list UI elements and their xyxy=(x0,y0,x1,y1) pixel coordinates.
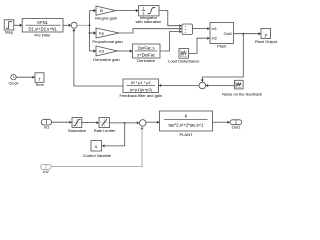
svg-text:Rate Limiter: Rate Limiter xyxy=(94,128,116,133)
svg-text:Clock: Clock xyxy=(8,81,18,86)
svg-text:Plant Output: Plant Output xyxy=(255,39,278,44)
svg-text:Plant: Plant xyxy=(217,43,227,48)
svg-text:Derivative gain: Derivative gain xyxy=(93,57,119,62)
label Integrator with saturation xyxy=(136,15,162,24)
port Out1 (subsystem) xyxy=(230,120,242,125)
subsystem Plant xyxy=(210,23,234,44)
svg-text:Derivative: Derivative xyxy=(137,58,156,63)
wire branch to Kd xyxy=(90,49,97,52)
wire In2 to sum3 xyxy=(51,127,143,167)
source Noise xyxy=(235,80,244,89)
svg-text:Pre Filter: Pre Filter xyxy=(34,32,51,37)
wire branch to Ki xyxy=(90,9,97,12)
sink Time xyxy=(35,73,44,83)
wire Feedback filter to sum1 (negative feedback) xyxy=(72,29,123,86)
svg-text:Step: Step xyxy=(5,30,14,35)
wire Noise to sum2 xyxy=(206,84,235,87)
svg-text:Proportional gain: Proportional gain xyxy=(92,39,122,44)
transfer function PLANT xyxy=(160,111,213,131)
svg-text:Time: Time xyxy=(35,82,45,87)
wire Step to Pre Filter xyxy=(14,24,22,27)
wire Load Disturbance to Plant In2 xyxy=(189,37,210,54)
integrator with saturation block xyxy=(139,6,160,16)
gain Ki xyxy=(96,6,116,15)
wire Kd to Derivative xyxy=(118,49,133,52)
wire Derivative to sum block input3 xyxy=(160,30,182,51)
wire Clock to Time xyxy=(16,76,35,79)
wire branch to Control Variable scope xyxy=(102,123,125,147)
port In2 (subsystem) xyxy=(41,165,52,170)
svg-text:D1.s²+D2.s+N1: D1.s²+D2.s+N1 xyxy=(28,27,57,32)
sum junction sum2 (noise) xyxy=(199,82,206,89)
svg-text:tau^2.s²+2*tau.s+1: tau^2.s²+2*tau.s+1 xyxy=(168,123,204,128)
scope Plant Output xyxy=(261,29,271,39)
svg-text:DerFac.s: DerFac.s xyxy=(138,45,155,50)
svg-text:Kd: Kd xyxy=(99,49,104,54)
svg-text:Load Disturbance: Load Disturbance xyxy=(168,59,200,64)
svg-text:Out1: Out1 xyxy=(232,125,241,130)
svg-text:Control Variable: Control Variable xyxy=(83,153,112,158)
svg-text:In1: In1 xyxy=(212,26,217,31)
sum junction sum1 xyxy=(71,22,77,28)
transfer function Derivative xyxy=(133,44,161,58)
wire PLANT to Out1 xyxy=(213,121,230,124)
svg-text:(s+p1)(s+p2): (s+p1)(s+p2) xyxy=(130,87,153,92)
wire sum block to Plant In1 xyxy=(193,27,210,30)
step source Step xyxy=(4,20,14,30)
svg-text:Out1: Out1 xyxy=(224,31,232,36)
svg-text:Kf * p1 * p2: Kf * p1 * p2 xyxy=(131,80,151,85)
svg-text:PLANT: PLANT xyxy=(180,132,193,137)
svg-text:s+DerFac: s+DerFac xyxy=(137,53,155,58)
wire branch vertical xyxy=(89,11,91,51)
wire Saturation to Rate Limiter xyxy=(82,121,99,124)
svg-text:Saturation: Saturation xyxy=(68,128,86,133)
wire In1 to Saturation xyxy=(52,121,72,124)
transfer function Feedback filter and gain xyxy=(123,79,159,93)
source Clock xyxy=(11,75,16,80)
svg-text:1: 1 xyxy=(142,7,144,11)
svg-text:Feedback filter and gain: Feedback filter and gain xyxy=(119,93,162,98)
wire Pre Filter to sum1 xyxy=(63,24,71,27)
svg-text:with saturation: with saturation xyxy=(136,19,162,24)
svg-text:In2: In2 xyxy=(212,36,217,41)
svg-text:+: + xyxy=(185,30,187,34)
wire Rate Limiter to sum3 xyxy=(110,121,140,124)
wire feedback from plant output branch down to noise sum xyxy=(201,34,244,82)
wire Plant Out1 to Plant Output scope xyxy=(234,32,262,35)
gain Kd xyxy=(96,46,118,56)
wire Kp to sum block input2 xyxy=(119,27,182,33)
wire integrator to sum block input1 xyxy=(159,11,182,28)
svg-text:Noise on the feedback: Noise on the feedback xyxy=(222,91,262,96)
svg-text:Kp: Kp xyxy=(99,31,104,36)
svg-text:Integral gain: Integral gain xyxy=(95,15,117,20)
scope Control Variable xyxy=(91,141,102,152)
wire sum2 to Feedback filter xyxy=(159,84,199,87)
transfer function Pre Filter xyxy=(22,19,63,33)
nonlinearity Rate Limiter xyxy=(99,118,110,128)
svg-text:KFN1: KFN1 xyxy=(37,20,48,25)
wire branch to Kp xyxy=(90,31,97,34)
wire sum3 to PLANT xyxy=(146,121,160,124)
sum junction sum3 xyxy=(139,120,146,127)
sum block (rectangular) xyxy=(182,24,193,35)
nonlinearity Saturation xyxy=(72,118,82,128)
svg-text:In1: In1 xyxy=(44,124,50,129)
wire Ki to integrator xyxy=(116,9,139,12)
source Load Disturbance xyxy=(179,49,189,59)
port In1 (subsystem) xyxy=(41,119,51,125)
svg-text:Ki: Ki xyxy=(100,8,104,13)
svg-text:In2: In2 xyxy=(43,169,49,174)
svg-text:K: K xyxy=(185,113,188,118)
gain Kp xyxy=(96,28,119,38)
wire sum1 to gain branch xyxy=(77,24,89,26)
